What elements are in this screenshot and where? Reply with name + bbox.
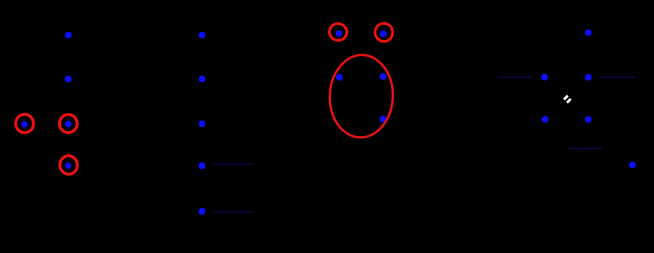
electron dot B5 — [199, 208, 206, 215]
electron dot D4 — [542, 116, 549, 123]
highlight circle H2 — [58, 113, 79, 134]
electron dot B2 — [199, 76, 206, 83]
electron dot D5 — [585, 116, 592, 123]
electron dot C4 — [380, 73, 387, 80]
electron dot A1 — [65, 32, 72, 39]
electron dot B1 — [199, 32, 206, 39]
electron dot C2 — [380, 30, 387, 37]
electron dot B4 — [199, 162, 206, 169]
highlight circle H1 — [15, 113, 35, 134]
bond line N2 — [214, 211, 253, 212]
highlight circle H3 — [59, 155, 78, 175]
electron dot D2 — [541, 74, 548, 81]
electron dot A4 — [65, 121, 72, 128]
electron dot A2 — [65, 76, 72, 83]
highlight circle H4 — [328, 22, 349, 42]
electron dot B3 — [199, 120, 206, 127]
electron dot A3 — [21, 121, 28, 128]
electron dot C1 — [336, 30, 343, 37]
highlight circle H5 — [374, 22, 394, 43]
electron dot D6 — [629, 162, 636, 169]
highlight ellipse H6 — [328, 54, 395, 139]
electron dot C3 — [336, 74, 343, 81]
electron dot C5 — [380, 116, 387, 123]
white hash mark — [563, 95, 572, 104]
bond line N1 — [214, 164, 252, 165]
bond line N5 — [568, 148, 602, 149]
electron dot D1 — [585, 29, 592, 36]
bond line N3 — [498, 77, 532, 78]
electron dot A5 — [65, 162, 71, 168]
electron dot D3 — [585, 74, 592, 81]
bond line N4 — [601, 77, 635, 78]
